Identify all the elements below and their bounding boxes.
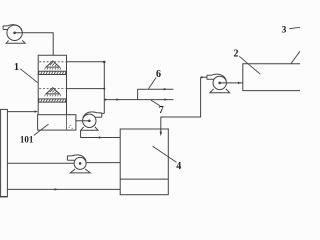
tank 101 [38,115,76,130]
junction at riser top corner [103,61,105,63]
wire lower spray line [67,88,105,90]
svg-text:2: 2 [234,49,239,60]
arrow on branch [116,98,119,100]
packing bed 2 [39,99,66,102]
wire pump P3 inlet connector [201,76,207,78]
svg-text:3: 3 [282,26,287,36]
packing bed 1 [39,71,66,74]
svg-text:1: 1 [14,62,19,73]
wire feed tank bottom to box 4 [7,188,120,190]
leader for label 4 [153,146,177,162]
leader from vessel 2 toward label 3 [291,51,300,64]
pump P3 (top right) [207,74,230,93]
box 4 [120,129,168,195]
arrow into box 4 [160,132,162,137]
wire blower to tower top [15,33,54,56]
arrow on drain line [99,136,102,138]
feed tank (left) [0,109,7,196]
blower B1 [3,25,25,44]
wire feed tank to tower bottom [7,111,36,113]
riser to outlet 6 [137,89,139,99]
wire feed tank to pump P2 [7,162,74,164]
leader for label 7 [151,100,160,106]
leader for label 101 [34,124,49,135]
wire pump P3 to vessel 2 [220,82,243,84]
leader for label 1 [20,69,37,83]
svg-text:101: 101 [20,134,34,144]
svg-text:4: 4 [176,161,181,172]
wire tank101 to pump P1 [76,120,89,122]
wire branch to outlets 6/7 [104,99,173,101]
junction at riser [103,88,105,90]
spray nozzle N1 [45,61,61,70]
arrow on branch end [164,98,167,100]
svg-text:7: 7 [159,105,164,116]
arrow into tower [35,110,38,112]
leader for label 2 [239,56,260,74]
nozzle header 1 (dashed) [39,61,65,63]
junction at branch start [105,99,107,101]
downpipe pump P3 to box 4 [161,77,201,132]
wire outlet 6 stub [138,88,174,90]
vessel 2 [243,64,300,91]
arrow on bottom line [55,188,58,190]
leader for label 3 [289,27,300,28]
riser pipe (pump P1 to spray headers) [103,62,105,114]
wire pump P1 outlet connector [102,112,105,114]
spray nozzle N2 [45,88,61,97]
svg-text:6: 6 [156,69,161,80]
arrow on outlet 6 [164,88,167,90]
tower 1 [38,55,66,114]
wire pump P2 to box 4 [86,162,120,164]
pump P2 (lower left) [67,155,90,173]
arrow into vessel 2 [238,82,241,84]
leader for label 6 [149,77,157,88]
nozzle header 2 (dashed) [39,88,65,90]
drain pump P1 to box 4 [81,130,121,137]
wire upper spray line [67,61,105,63]
pump P1 (at tank 101) [81,112,102,130]
